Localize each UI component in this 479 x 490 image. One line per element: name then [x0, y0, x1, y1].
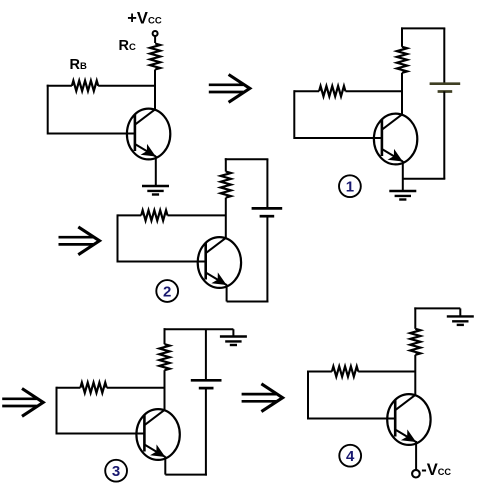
wire	[168, 214, 226, 216]
resistor Rc2	[221, 172, 231, 198]
wire	[345, 90, 402, 92]
wire	[164, 328, 166, 344]
resistor Rc3	[159, 344, 169, 370]
wire	[308, 418, 395, 420]
battery V1	[430, 84, 461, 92]
wire	[154, 36, 156, 43]
resistor Rb	[72, 81, 98, 91]
wire	[118, 261, 206, 263]
wire	[98, 85, 156, 87]
resistor Rb4	[332, 366, 358, 376]
wire	[226, 285, 228, 302]
terminal +Vcc	[153, 31, 158, 36]
wire	[401, 27, 445, 29]
arrow 3	[2, 389, 43, 417]
wire	[459, 308, 461, 316]
wire	[225, 198, 227, 239]
wire	[107, 387, 165, 389]
wire	[227, 301, 269, 303]
wire	[57, 433, 145, 435]
wire	[293, 90, 295, 139]
wire	[205, 388, 207, 476]
wire	[225, 158, 269, 160]
node 1	[339, 175, 361, 197]
wire	[47, 85, 72, 87]
wire	[164, 328, 234, 330]
wire	[117, 214, 119, 262]
arrow 1	[209, 75, 250, 103]
terminal -Vcc	[412, 470, 420, 478]
ground	[447, 316, 474, 325]
arrow 2	[59, 227, 100, 255]
wire	[401, 27, 403, 46]
wire	[294, 90, 319, 92]
resistor Rb1	[319, 86, 345, 96]
wire	[294, 137, 382, 139]
wire	[48, 133, 136, 135]
wire	[56, 387, 58, 435]
wire	[403, 178, 446, 180]
node 3	[105, 460, 127, 482]
transistor Q2	[198, 237, 241, 288]
ground	[389, 191, 416, 200]
wire	[57, 387, 81, 389]
wire	[155, 156, 157, 186]
wire	[205, 329, 207, 380]
wire	[164, 370, 166, 411]
svg-text:RC: RC	[119, 38, 136, 54]
svg-text:1: 1	[346, 179, 354, 196]
wire	[118, 214, 142, 216]
wire	[154, 70, 156, 110]
wire	[402, 161, 404, 191]
resistor Rc	[150, 44, 160, 70]
transistor Q	[127, 109, 170, 160]
svg-text:RB: RB	[70, 57, 87, 73]
wire	[401, 73, 403, 115]
wire	[414, 307, 460, 309]
resistor Rb2	[141, 210, 167, 220]
wire	[358, 371, 415, 373]
wire	[164, 457, 166, 475]
transistor Q4	[387, 394, 430, 445]
wire	[415, 441, 417, 470]
wire	[308, 371, 332, 373]
arrow 4	[242, 384, 283, 412]
battery V3	[191, 380, 222, 388]
wire	[232, 329, 234, 336]
svg-text:2: 2	[163, 283, 171, 300]
wire	[307, 371, 309, 420]
svg-text:-VCC: -VCC	[421, 461, 451, 479]
ground	[142, 186, 169, 195]
wire	[443, 91, 445, 178]
wire	[225, 158, 227, 171]
wire	[443, 28, 445, 83]
svg-text:3: 3	[112, 463, 120, 480]
wire	[47, 85, 49, 135]
wire	[165, 474, 207, 476]
wire	[266, 216, 268, 302]
resistor Rc4	[410, 329, 420, 355]
ground	[220, 337, 247, 346]
wire	[414, 307, 416, 328]
wire	[266, 159, 268, 208]
wire	[414, 355, 416, 396]
resistor Rb3	[80, 383, 106, 393]
svg-text:+VCC: +VCC	[127, 9, 162, 27]
resistor Rc1	[397, 47, 407, 73]
transistor Q3	[136, 409, 179, 460]
transistor Q1	[374, 114, 417, 165]
node 2	[156, 280, 178, 302]
node 4	[339, 445, 361, 467]
svg-text:4: 4	[346, 448, 355, 465]
battery V2	[252, 208, 283, 216]
